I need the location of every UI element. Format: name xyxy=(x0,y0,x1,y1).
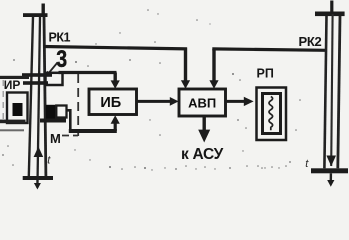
wire top line right segment xyxy=(212,49,326,50)
right column wall line 1 xyxy=(324,16,326,168)
left column wall line 3 xyxy=(44,17,46,177)
svg-text:РК1: РК1 xyxy=(49,31,71,45)
thick wire to ИБ bottom xyxy=(69,129,117,133)
wire ИБ to АВП xyxy=(137,100,173,103)
ИР left dashed boundary xyxy=(2,80,4,124)
wire rise into ИБ bottom xyxy=(114,122,117,131)
svg-text:3: 3 xyxy=(56,45,67,73)
М sensor white box xyxy=(56,106,66,118)
block АВП xyxy=(179,89,226,116)
right column down arrowhead xyxy=(326,156,336,167)
left column (riser above top tick) xyxy=(42,4,45,17)
arrowhead into АВП top left xyxy=(181,80,190,89)
svg-text:РК2: РК2 xyxy=(299,34,322,49)
left column bottom tick bar xyxy=(23,176,53,180)
wire top line left segment xyxy=(44,47,188,49)
load sensor М black square on column xyxy=(46,105,57,119)
right column riser above top tick xyxy=(330,1,333,14)
block ИБ xyxy=(89,89,137,115)
right column wall line 3 xyxy=(338,16,340,168)
arrowhead into ИБ bottom xyxy=(111,115,120,123)
ИР sensor black square xyxy=(13,103,23,116)
wire drop from РК2 line into АВП xyxy=(212,49,215,82)
wire from М box right xyxy=(67,110,71,131)
arrowhead к АСУ xyxy=(198,130,210,143)
scan noise specks xyxy=(2,9,301,171)
dashed enclosure right edge xyxy=(77,74,79,136)
clamp upper bar on column xyxy=(22,73,52,77)
left column up arrowhead xyxy=(34,147,44,158)
faint second bottom line xyxy=(0,129,24,131)
right column bottom tick bar xyxy=(311,168,348,173)
enclosure line bottom of ИР zone xyxy=(0,120,26,124)
svg-text:М: М xyxy=(50,131,61,146)
right column middle line xyxy=(331,14,332,166)
wire from sensor box to ИБ top xyxy=(59,71,117,74)
right column top tick bar xyxy=(315,12,345,17)
svg-text:РП: РП xyxy=(257,67,274,81)
leader arrowhead xyxy=(46,71,52,77)
arrowhead into ИБ top xyxy=(111,80,120,88)
wire drop into ИБ xyxy=(113,73,116,83)
strain sensor box З on right of column xyxy=(46,73,63,85)
wire АВП down to АСУ xyxy=(202,116,205,131)
recorder РП outer box xyxy=(257,88,287,141)
svg-text:к АСУ: к АСУ xyxy=(181,146,224,163)
recorder wavy chart line xyxy=(269,97,273,131)
enclosure line from left edge (top of ИР zone) xyxy=(0,76,29,79)
wire drop from РК1 line into АВП xyxy=(184,48,187,83)
right column tail below bar xyxy=(330,173,333,182)
right column small down arrowhead at tail xyxy=(327,180,334,187)
left column top tick bar xyxy=(23,13,48,17)
svg-text:ИБ: ИБ xyxy=(100,95,121,111)
left column tail below bar xyxy=(36,180,38,188)
svg-text:ИР: ИР xyxy=(4,78,21,92)
М assembly bottom bar xyxy=(40,119,66,123)
wire АВП to РП xyxy=(226,100,247,103)
recorder РП inner box xyxy=(263,94,281,134)
svg-text:АВП: АВП xyxy=(188,95,216,110)
left column wall line 1 xyxy=(29,17,33,177)
leader line from З to clamp xyxy=(48,63,58,75)
arrowhead into АВП left xyxy=(170,97,179,106)
clamp lower bar on column xyxy=(23,81,48,85)
ИР sensor box xyxy=(7,93,28,124)
left column middle line xyxy=(38,17,40,177)
dashed enclosure bottom edge xyxy=(62,135,78,137)
arrowhead into РП xyxy=(244,97,254,106)
arrowhead into АВП top right xyxy=(209,80,218,89)
left column small down arrowhead at tail xyxy=(34,183,41,190)
